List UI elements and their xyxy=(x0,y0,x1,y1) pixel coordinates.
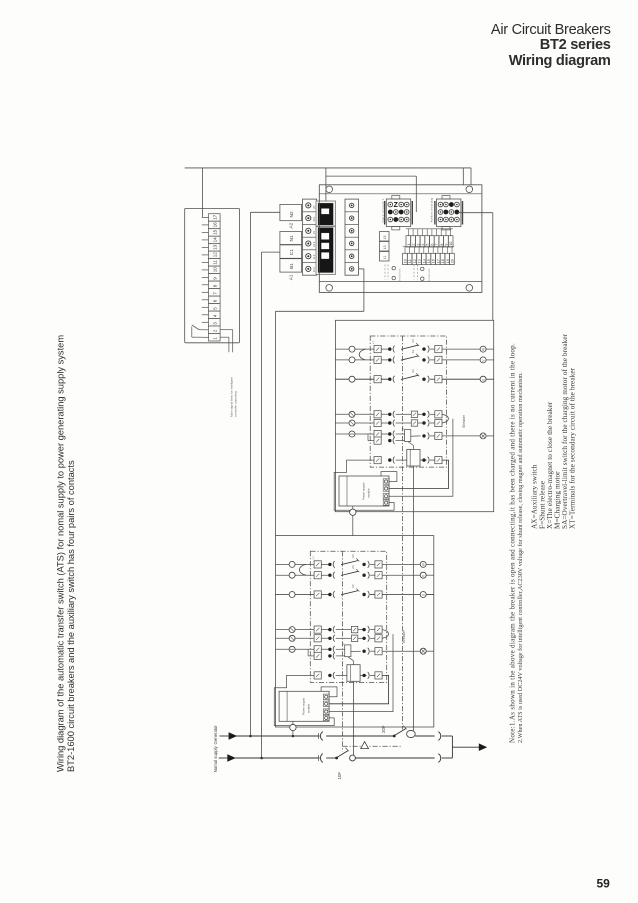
lower terminal circle A xyxy=(420,648,426,654)
upper module terminals xyxy=(383,479,389,484)
lower aux switch AX row 1 xyxy=(276,563,330,565)
svg-text:9: 9 xyxy=(213,277,218,280)
panel screw hole bottom-left xyxy=(326,285,333,292)
svg-text:module: module xyxy=(367,488,371,498)
svg-text:8: 8 xyxy=(440,244,444,246)
wire from breaker output to lower block feed xyxy=(359,268,364,270)
svg-text:2: 2 xyxy=(213,329,218,332)
svg-text:6: 6 xyxy=(213,299,218,302)
svg-text:18: 18 xyxy=(441,259,445,263)
svg-text:7: 7 xyxy=(435,244,439,246)
svg-text:11.3: 11.3 xyxy=(312,254,316,259)
svg-text:10.3: 10.3 xyxy=(312,267,316,273)
svg-text:10: 10 xyxy=(404,259,408,263)
upper module link down to lower block xyxy=(352,515,354,535)
svg-text:4: 4 xyxy=(213,314,218,317)
upper terminal circle A xyxy=(480,433,486,439)
svg-text:2: 2 xyxy=(412,244,416,246)
lower bracket joining motor rows xyxy=(382,630,388,639)
svg-text:AX: AX xyxy=(351,565,355,569)
svg-text:3: 3 xyxy=(213,322,218,325)
wire from XT terminal 2 xyxy=(220,329,233,331)
upper charging motor M / SA switch row 1 xyxy=(335,413,389,415)
svg-text:Note:1.As shown in the above d: Note:1.As shown in the above diagram the… xyxy=(509,343,517,743)
panel screw hole top-right xyxy=(466,186,473,193)
svg-text:N2: N2 xyxy=(289,211,295,217)
bus 2 disconnect contact right xyxy=(438,754,440,763)
svg-text:A1: A1 xyxy=(288,274,294,280)
svg-text:Wiring diagram of the automati: Wiring diagram of the automatic transfer… xyxy=(56,335,66,772)
svg-text:20: 20 xyxy=(451,259,455,263)
bus 1 (generator supply) arrow xyxy=(229,732,238,740)
svg-text:Auxiliary circuit plug: Auxiliary circuit plug xyxy=(430,197,434,222)
svg-text:Wiring diagram: Wiring diagram xyxy=(509,53,611,69)
lower coil to bus wire xyxy=(353,681,355,755)
terminal block XT enclosure xyxy=(185,208,240,342)
svg-text:install hole: install hole xyxy=(398,268,402,281)
breaker QF handle block (2-pole section) xyxy=(316,201,336,226)
breaker 20F blade xyxy=(393,735,396,738)
node C1 label box xyxy=(280,245,302,258)
bus 1 line xyxy=(237,735,320,737)
svg-text:1: 1 xyxy=(213,337,218,340)
upper module wire t1 loop xyxy=(381,472,397,482)
lower module wire t3 to motor rows xyxy=(329,634,393,712)
svg-text:A2: A2 xyxy=(288,222,294,228)
wire N2 to bus 1 xyxy=(251,211,280,213)
svg-text:20F: 20F xyxy=(381,725,386,733)
svg-text:10: 10 xyxy=(213,267,218,273)
upper charging motor M / SA switch row 2 xyxy=(335,422,389,424)
svg-text:Plug-in connector 1: Plug-in connector 1 xyxy=(381,198,385,223)
svg-text:C1: C1 xyxy=(289,249,295,255)
svg-text:W: W xyxy=(422,563,426,566)
svg-text:module: module xyxy=(307,703,311,713)
breaker 10F blade xyxy=(335,757,338,760)
lower closing magnet X coil xyxy=(347,665,360,682)
svg-text:11: 11 xyxy=(213,260,218,265)
upper module wire t4 wrap to X row xyxy=(334,460,394,510)
svg-text:8: 8 xyxy=(213,284,218,287)
lower aux switch AX row 2 xyxy=(276,574,330,576)
lower aux switch AX row 3 xyxy=(276,594,330,596)
svg-text:XT: XT xyxy=(312,556,316,560)
connector plug 1 (with Z marking) xyxy=(386,199,410,227)
svg-text:12: 12 xyxy=(213,252,218,258)
svg-text:N1: N1 xyxy=(289,235,295,241)
small terminal boxes L1 L3 L5 xyxy=(380,232,390,242)
lower module link to bus1 xyxy=(292,731,294,736)
svg-text:Generator: Generator xyxy=(213,725,218,745)
lower module wire t4 wrap to X row xyxy=(274,675,334,725)
wire: drop to terminal strip xyxy=(201,168,203,217)
svg-text:10F: 10F xyxy=(337,772,342,780)
svg-text:19: 19 xyxy=(446,259,450,263)
panel small holes xyxy=(392,267,395,270)
wire connector 2 to right bus xyxy=(458,212,493,214)
svg-text:6: 6 xyxy=(430,244,434,246)
svg-text:L3: L3 xyxy=(383,245,387,249)
lower charging motor M / SA switch row 1 xyxy=(276,629,330,631)
upper power supply module xyxy=(339,476,389,506)
wire: drop to breaker pole xyxy=(325,168,327,204)
svg-text:install hole: install hole xyxy=(427,268,431,281)
svg-text:BT2 series: BT2 series xyxy=(540,37,611,53)
lower jumper between aux rows xyxy=(299,564,306,575)
svg-text:15: 15 xyxy=(427,259,431,263)
upper aux switch AX row 3 xyxy=(335,378,389,380)
breaker QF handle block (3-pole section) xyxy=(316,227,336,275)
terminal XT tick wires xyxy=(202,216,209,218)
svg-text:B1: B1 xyxy=(289,263,295,269)
bus merge to output xyxy=(451,736,453,758)
lower module earth circle xyxy=(292,721,294,724)
svg-text:Power supply: Power supply xyxy=(302,697,306,715)
upper breaker dash-dot boundary xyxy=(370,336,446,467)
svg-text:10: 10 xyxy=(449,242,453,246)
svg-text:14: 14 xyxy=(213,237,218,243)
svg-text:Z: Z xyxy=(394,202,399,209)
lower shunt release F coil xyxy=(345,645,351,657)
svg-text:9: 9 xyxy=(445,244,449,246)
svg-text:AX: AX xyxy=(351,554,355,558)
upper coil to bus wire xyxy=(412,466,414,731)
lower breaker dash-dot boundary xyxy=(310,551,386,682)
svg-text:AX=Auxiliary switch: AX=Auxiliary switch xyxy=(531,464,539,529)
svg-text:12: 12 xyxy=(413,259,417,263)
panel screw hole top-left xyxy=(326,186,333,193)
svg-text:13: 13 xyxy=(418,259,422,263)
upper shunt release F coil xyxy=(405,430,411,442)
svg-text:1N: 1N xyxy=(312,231,316,234)
svg-text:XT=Terminals for the secondary: XT=Terminals for the secondary circuit o… xyxy=(569,367,577,529)
svg-text:XT: XT xyxy=(372,340,376,344)
svg-text:BT2-1600 circuit breakers and: BT2-1600 circuit breakers and the auxili… xyxy=(66,460,76,772)
node N2 label box xyxy=(280,204,302,220)
svg-text:17: 17 xyxy=(213,214,218,220)
svg-text:16: 16 xyxy=(213,222,218,228)
terminal strip XT cells xyxy=(209,214,221,222)
lower module wire t1 loop xyxy=(321,687,337,697)
svg-text:16: 16 xyxy=(432,259,436,263)
wire: top feeder line xyxy=(185,167,471,169)
motor terminal ellipse on bus 1 xyxy=(407,730,416,737)
svg-text:AX: AX xyxy=(351,584,355,588)
upper closing magnet X coil xyxy=(407,449,420,466)
svg-text:5: 5 xyxy=(213,307,218,310)
svg-text:Power supply: Power supply xyxy=(362,482,366,500)
upper bracket joining motor rows xyxy=(442,414,448,423)
lower link to closing coil xyxy=(348,657,354,661)
svg-text:11: 11 xyxy=(408,259,412,263)
wire C1 to bus 2 xyxy=(262,251,280,253)
svg-text:4: 4 xyxy=(421,244,425,246)
upper aux switch AX row 2 xyxy=(335,359,389,361)
svg-text:5: 5 xyxy=(426,244,430,246)
svg-text:15: 15 xyxy=(213,229,218,235)
wire from XT terminal 1 xyxy=(220,336,229,338)
svg-text:17: 17 xyxy=(436,259,440,263)
node N1 label box xyxy=(280,231,302,244)
connector plug 2 xyxy=(437,199,461,227)
bus 2 disconnect contact left xyxy=(320,754,322,763)
lower closing magnet X row xyxy=(314,672,321,679)
breaker QF left terminal pads xyxy=(303,199,317,275)
wire: drop to panel right xyxy=(470,168,472,185)
lower shunt release F rows xyxy=(276,648,330,650)
lower module wire t2 to coil row xyxy=(329,675,389,703)
svg-text:AX: AX xyxy=(411,369,415,373)
wire: branch to connector 1 xyxy=(326,175,416,177)
bus 1 disconnect contact right xyxy=(438,732,440,741)
svg-text:AX: AX xyxy=(411,350,415,354)
svg-text:2N: 2N xyxy=(312,205,316,208)
svg-text:AX: AX xyxy=(411,339,415,343)
node B1 label box xyxy=(280,259,302,272)
terminal circle on bus 2 xyxy=(350,755,356,761)
svg-text:SA=Overtravel-limit switch for: SA=Overtravel-limit switch for the charg… xyxy=(561,333,569,529)
svg-text:14: 14 xyxy=(422,259,426,263)
upper module wire t3 to motor rows xyxy=(389,419,453,497)
lower power supply module xyxy=(279,691,329,721)
svg-text:W: W xyxy=(482,348,486,351)
switch hook between XT terminals 1 and 2 xyxy=(199,329,202,331)
svg-text:L5: L5 xyxy=(383,235,387,239)
svg-text:2.When ATS is used DC24V volta: 2.When ATS is used DC24V voltage for int… xyxy=(517,372,524,743)
svg-text:1: 1 xyxy=(407,244,411,246)
upper jumper between aux rows xyxy=(359,349,366,360)
upper module wire t2 to coil row xyxy=(389,460,449,488)
svg-text:31.3: 31.3 xyxy=(312,241,316,247)
panel plate outline xyxy=(319,185,482,293)
panel dashed marks xyxy=(384,265,386,280)
svg-text:Breaker: Breaker xyxy=(462,414,466,427)
panel terminal strip 10-20 xyxy=(403,246,455,248)
svg-text:7: 7 xyxy=(213,292,218,295)
lower block outline box xyxy=(276,536,434,727)
bus 2 (normal supply) arrow xyxy=(227,754,236,762)
breaker QF right terminal pads xyxy=(345,199,359,275)
svg-text:controller operating: controller operating xyxy=(234,391,238,417)
svg-text:23.1: 23.1 xyxy=(312,216,316,222)
mechanical interlock linkage xyxy=(343,745,403,747)
upper link to closing coil xyxy=(408,441,414,445)
svg-text:13: 13 xyxy=(213,244,218,250)
output arrow xyxy=(479,743,487,751)
panel terminal strip 1-10 xyxy=(406,228,453,230)
upper closing magnet X row xyxy=(374,457,381,464)
svg-text:3: 3 xyxy=(416,244,420,246)
lower block centerline dash-dot xyxy=(342,551,344,751)
upper aux switch AX row 1 xyxy=(335,348,389,350)
bus 2 line xyxy=(235,757,319,759)
upper shunt release F rows xyxy=(335,433,389,435)
interlock triangle xyxy=(361,742,369,749)
svg-text:Air Circuit Breakers: Air Circuit Breakers xyxy=(491,22,611,38)
upper block outline box xyxy=(335,320,493,511)
panel screw hole bottom-right xyxy=(466,285,473,292)
upper block right feed wire already drawn; centerline dash-dot xyxy=(401,336,403,730)
wire: drop to panel left xyxy=(462,168,464,185)
bus 1 disconnect contact left xyxy=(320,732,322,741)
svg-text:L1: L1 xyxy=(383,255,387,259)
lower module terminals xyxy=(323,694,329,699)
lower charging motor M / SA switch row 2 xyxy=(276,637,330,639)
svg-text:Nomal supply: Nomal supply xyxy=(213,745,218,772)
svg-text:59: 59 xyxy=(597,877,611,891)
upper module earth circle xyxy=(352,506,354,509)
junction dots on buses xyxy=(249,735,252,738)
